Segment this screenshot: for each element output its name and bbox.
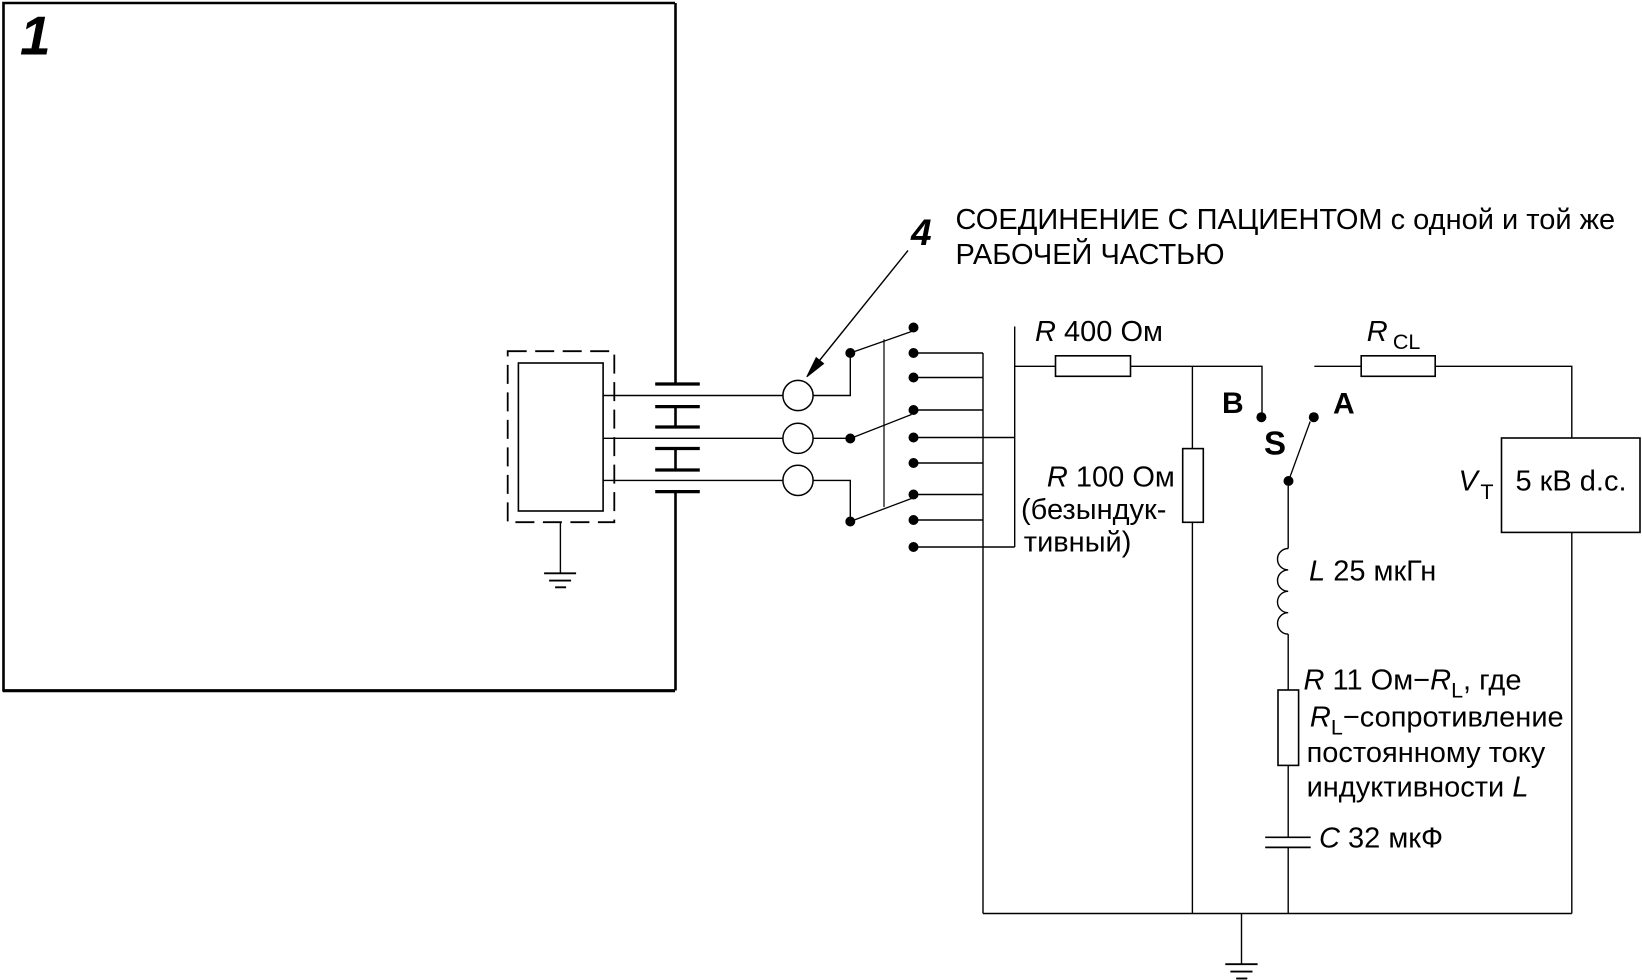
svg-text:L 25 мкГн: L 25 мкГн <box>1309 556 1436 588</box>
wire T5 to bus B <box>914 437 1015 439</box>
svg-text:S: S <box>1264 425 1286 462</box>
svg-text:постоянному току: постоянному току <box>1307 737 1546 769</box>
svg-text:CL: CL <box>1393 330 1421 354</box>
wire circle2 to selector <box>813 437 850 439</box>
svg-text:T: T <box>1480 480 1493 504</box>
switch S pivot dot <box>1284 476 1294 486</box>
capacitor C plate top <box>1265 836 1311 838</box>
wire T7 to bus A <box>914 494 984 496</box>
svg-text:R: R <box>1367 316 1388 348</box>
patient connection circle 2 <box>783 423 813 453</box>
wire bus B to R400 <box>1015 365 1056 367</box>
selector pole dot P3 <box>845 517 855 527</box>
wire circle1 to selector <box>813 353 850 396</box>
wire R11 to capacitor <box>1287 765 1289 837</box>
selector blade 3 <box>850 499 911 522</box>
svg-text:R 100 Ом: R 100 Ом <box>1047 461 1175 493</box>
wire R400 to node B <box>1131 366 1263 414</box>
wire T9 to bus B <box>914 546 1015 548</box>
selector contact dot T3 <box>909 373 919 383</box>
wire VT to rail <box>1571 532 1573 913</box>
screened box (dashed) <box>508 351 615 522</box>
svg-text:1: 1 <box>20 5 51 67</box>
wire T3 to bus A <box>914 377 984 379</box>
wire pivot to inductor <box>1287 486 1289 549</box>
bus A (return to rail) <box>982 353 984 914</box>
svg-text:СОЕДИНЕНИЕ С ПАЦИЕНТОМ с одной: СОЕДИНЕНИЕ С ПАЦИЕНТОМ с одной и той же <box>956 204 1616 236</box>
svg-text:(безындук-: (безындук- <box>1021 494 1166 526</box>
wire T4 to bus A <box>914 409 984 411</box>
resistor R 11 <box>1278 690 1299 765</box>
svg-text:V: V <box>1459 466 1481 498</box>
wire junction to R100 <box>1191 366 1193 448</box>
selector contact dot T6 <box>909 458 919 468</box>
wire T2 to bus A <box>914 352 984 354</box>
wire T8 to bus A <box>914 519 984 521</box>
leader arrow from label 4 <box>809 251 908 374</box>
switch S contact A dot <box>1309 412 1319 422</box>
bottom rail <box>983 913 1572 915</box>
ground symbol (screened box) <box>544 573 576 587</box>
wire capacitor to rail <box>1287 847 1289 913</box>
wire lead 1 <box>603 395 783 397</box>
wire T6 to bus A <box>914 462 984 464</box>
switch S blade <box>1289 422 1311 482</box>
wall stubs between plates <box>674 407 677 470</box>
selector contact dot T1 <box>909 323 919 333</box>
svg-text:R 400 Ом: R 400 Ом <box>1035 316 1163 348</box>
gang linkage line <box>883 339 885 507</box>
ground lead of screened box <box>559 522 561 573</box>
wire node A to RCL <box>1314 365 1361 367</box>
svg-text:C 32 мкФ: C 32 мкФ <box>1319 822 1443 854</box>
wire lead 3 <box>603 479 783 481</box>
selector contact dot T9 <box>909 542 919 552</box>
patient connection circle 1 <box>783 380 813 410</box>
svg-text:РАБОЧЕЙ ЧАСТЬЮ: РАБОЧЕЙ ЧАСТЬЮ <box>956 237 1225 271</box>
patient connection circle 3 <box>783 465 813 495</box>
capacitor C plate bottom <box>1265 846 1311 848</box>
svg-text:B: B <box>1222 387 1244 420</box>
selector contact dot T4 <box>909 405 919 415</box>
bus B (to R 400) <box>1014 327 1016 548</box>
ground lead (rail) <box>1241 914 1243 965</box>
inductor L <box>1278 549 1289 635</box>
resistor R 400 <box>1056 356 1131 377</box>
selector pole dot P2 <box>845 434 855 444</box>
inner applied-part rectangle <box>518 363 603 511</box>
ground symbol (rail) <box>1225 964 1257 978</box>
selector contact dot T8 <box>909 515 919 525</box>
selector contact dot T7 <box>909 490 919 500</box>
selector blade 1 <box>850 332 911 354</box>
selector pole dot P1 <box>845 348 855 358</box>
resistor RCL <box>1361 356 1435 377</box>
svg-text:A: A <box>1333 387 1355 420</box>
svg-text:4: 4 <box>910 212 932 253</box>
svg-text:тивный): тивный) <box>1024 527 1132 559</box>
wire R100 to rail <box>1191 522 1193 913</box>
selector contact dot T2 <box>909 348 919 358</box>
feedthrough capacitor plates in enclosure wall <box>655 384 700 492</box>
resistor R 100 <box>1183 449 1204 523</box>
enclosure box 1 (HF generator) <box>3 3 676 691</box>
svg-text:индуктивности L: индуктивности L <box>1307 772 1529 804</box>
selector contact dot T5 <box>909 433 919 443</box>
voltage source VT box <box>1502 438 1641 532</box>
wire inductor to R11 <box>1287 634 1289 690</box>
switch S contact B dot <box>1256 412 1266 422</box>
selector blade 2 <box>850 415 911 439</box>
svg-text:5 кВ d.c.: 5 кВ d.c. <box>1516 465 1627 497</box>
wire lead 2 <box>603 437 783 439</box>
wire RCL to VT box <box>1435 366 1572 438</box>
wire circle3 to selector <box>813 480 850 521</box>
